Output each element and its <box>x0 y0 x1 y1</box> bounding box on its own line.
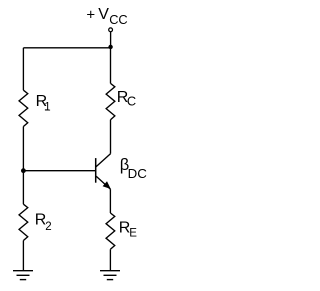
svg-text:C: C <box>127 94 136 109</box>
svg-text:+: + <box>86 6 95 23</box>
svg-text:1: 1 <box>44 102 50 114</box>
svg-text:V: V <box>98 6 109 23</box>
svg-text:2: 2 <box>45 221 51 233</box>
svg-text:E: E <box>129 228 137 240</box>
svg-text:DC: DC <box>128 166 148 181</box>
svg-text:CC: CC <box>109 12 127 27</box>
